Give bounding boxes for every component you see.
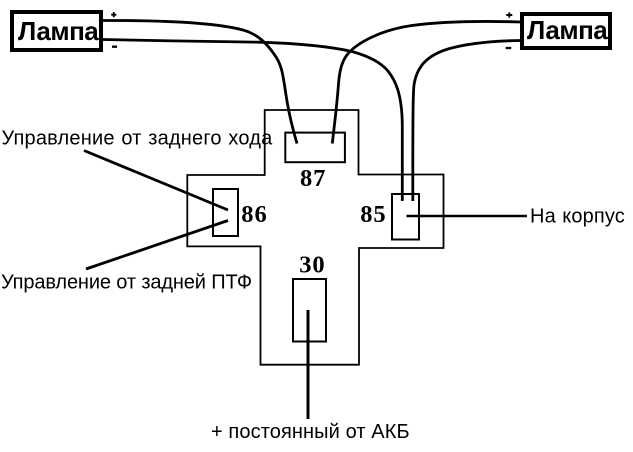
- svg-text:Лампа: Лампа: [527, 15, 608, 45]
- svg-text:30: 30: [299, 252, 325, 279]
- svg-text:+ постоянный от АКБ: + постоянный от АКБ: [211, 421, 410, 443]
- svg-text:87: 87: [300, 165, 326, 192]
- svg-text:Управление от заднего хода: Управление от заднего хода: [2, 128, 274, 150]
- svg-text:85: 85: [360, 201, 386, 228]
- svg-text:Лампа: Лампа: [18, 16, 99, 46]
- svg-text:Управление от задней ПТФ: Управление от задней ПТФ: [1, 271, 252, 293]
- svg-text:На корпус: На корпус: [530, 205, 625, 227]
- svg-text:86: 86: [241, 201, 267, 228]
